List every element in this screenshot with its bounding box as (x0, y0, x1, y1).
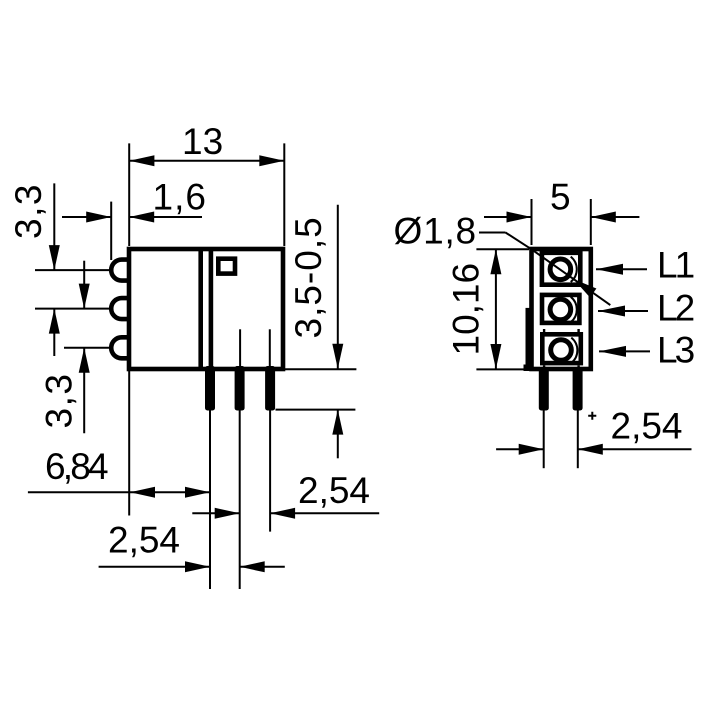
dimension 3,3 lower arrow down (79, 284, 90, 309)
front pin B extension line (577, 411, 579, 469)
dimension 13 extension line left (128, 143, 130, 246)
dimension 10,16 line (495, 249, 497, 369)
dimension 3,3 lower line B top segment (83, 261, 85, 309)
svg-text:3,3: 3,3 (39, 373, 80, 429)
LED lens bump 3 (111, 337, 129, 358)
dimension 2,54 (pins1-2) line left part (99, 566, 210, 568)
dimension 6,84 line (28, 491, 210, 493)
dimension 2,54 front line left part (496, 448, 544, 450)
dimension 10,16 bottom extension line (476, 368, 529, 370)
LED cell 3 circle (551, 340, 572, 361)
LED cell 3 lens arc (571, 338, 577, 363)
svg-text:3,5-0,5: 3,5-0,5 (288, 216, 329, 338)
dimension 1,6 line left tail (62, 216, 111, 218)
front pin A extension line (543, 411, 545, 469)
body outline front view (532, 249, 591, 369)
dimension 5 line right tail (591, 216, 640, 218)
pin end extension line right (276, 409, 356, 411)
dimension 3,5-0,5 lower segment (337, 410, 339, 459)
dimension 3,3 upper line A top segment (53, 183, 55, 270)
label arrow L2 (598, 310, 648, 312)
diameter leader arrowhead (574, 279, 597, 297)
pin hidden tick below cell3 right (577, 366, 579, 370)
dimension 3,3 upper arrow down (49, 245, 60, 270)
dimension 13 arrow left (129, 155, 154, 166)
LED cell 3 frame (542, 334, 581, 363)
dimension 1,6 arrow left (86, 212, 111, 223)
front pin B (573, 367, 583, 411)
dimension 1,6 line right tail (129, 216, 202, 218)
svg-text:10,16: 10,16 (446, 263, 487, 356)
dimension 10,16 arrow up (490, 249, 501, 274)
housing seam double line (198, 249, 203, 369)
dimension 10,16 top extension line (476, 248, 529, 250)
LED cell 2 circle (550, 299, 571, 320)
pin 1 side view (205, 366, 215, 411)
body outline side view (129, 249, 283, 369)
pin3 center extension line (269, 411, 271, 532)
LED cell 2 lens arc (571, 297, 577, 322)
body bottom extension line right (285, 368, 356, 370)
label arrow L1 (596, 268, 647, 270)
dimension 5 line left tail (484, 216, 532, 218)
dimension 2,54 front arrow right-pointing (519, 444, 544, 455)
svg-text:13: 13 (182, 121, 223, 162)
svg-text:L2: L2 (657, 287, 694, 328)
hidden lead line above pin3 (269, 329, 271, 368)
hidden lead line above pin2 (239, 329, 241, 368)
pin1 center extension line (209, 411, 211, 590)
dimension 3,3 upper arrow up (49, 309, 60, 334)
svg-text:3,3: 3,3 (8, 183, 49, 239)
diameter leader horizontal segment (479, 232, 506, 234)
left side tab (526, 308, 534, 371)
dimension 2,54 (pins1-2) arrow left-pointing (240, 561, 265, 572)
LED cell 1 circle (550, 259, 571, 280)
LED lens bump 1 (111, 260, 129, 281)
dimension 2,54 (pins2-3) line left part (192, 512, 239, 514)
svg-text:2,54: 2,54 (108, 520, 180, 561)
pin 3 side view (265, 366, 275, 411)
dimension 10,16 arrow down (490, 344, 501, 369)
pin hidden tick below cell3 left (543, 366, 545, 370)
LED cell 1 lens arc (571, 257, 577, 282)
body left edge lower extension line (128, 371, 130, 516)
dimension 13 line (129, 160, 284, 162)
LED lens bump 2 (111, 298, 129, 319)
svg-text:L1: L1 (657, 245, 694, 286)
diameter leader bend segment (506, 233, 532, 250)
dimension 3,3 lower arrow up (79, 348, 90, 373)
dimension 2,54 (pins2-3) line right part (270, 512, 379, 514)
dimension 2,54 front arrow left-pointing (578, 444, 603, 455)
dimension 3,3 lower line B bottom segment (83, 348, 85, 434)
dimension 6,84 arrow right (185, 487, 210, 498)
dimension 3,5-0,5 line upper segment (337, 205, 339, 369)
dimension 2,54 (pins2-3) arrow right-pointing (215, 508, 240, 519)
dimension 6,84 arrow left (130, 487, 155, 498)
polarity square mark (218, 259, 235, 274)
dimension 2,54 (pins1-2) line right part (240, 566, 285, 568)
pin 2 side view (235, 366, 245, 411)
dimension 1,6 extension line (110, 202, 112, 260)
dimension 5 extension line left (531, 199, 533, 245)
dimension 2,54 (pins1-2) arrow right-pointing (185, 561, 210, 572)
svg-text:1,6: 1,6 (153, 176, 207, 217)
LED1 center line (35, 269, 110, 271)
svg-text:2,54: 2,54 (298, 470, 370, 511)
dimension 1,6 arrow right (129, 212, 154, 223)
dimension 13 extension line right (283, 143, 285, 246)
svg-text:L3: L3 (657, 330, 694, 371)
diameter leader diagonal through LED1 (532, 249, 611, 305)
plus tolerance mark (588, 412, 596, 420)
dimension 5 extension line right (590, 199, 592, 245)
front pin A (539, 367, 549, 411)
LED3 center line (64, 347, 110, 349)
dimension 2,54 front line right part (578, 448, 692, 450)
dimension 3,3 upper line A bottom segment (53, 309, 55, 356)
pin2 center extension line (239, 411, 241, 590)
dimension 13 arrow right (259, 155, 284, 166)
pin hidden tick above cell3 left (543, 329, 545, 333)
LED cell 2 frame (542, 295, 579, 323)
svg-text:5: 5 (550, 177, 571, 218)
svg-text:Ø1,8: Ø1,8 (394, 211, 477, 252)
dimension 2,54 (pins2-3) arrow left-pointing (270, 508, 295, 519)
pin hidden tick above cell3 right (577, 329, 579, 333)
label arrow L3 (599, 350, 650, 352)
LED cell 1 frame (542, 253, 580, 285)
svg-text:2,54: 2,54 (611, 406, 683, 447)
dimension 3,5-0,5 arrow down (332, 344, 343, 369)
dimension 5 arrow left (507, 212, 532, 223)
svg-text:6,84: 6,84 (45, 446, 108, 487)
dimension 3,5-0,5 arrow up (332, 410, 343, 435)
left side tab foot (524, 365, 532, 372)
LED2 center line (35, 308, 110, 310)
dimension 5 arrow right (591, 212, 616, 223)
